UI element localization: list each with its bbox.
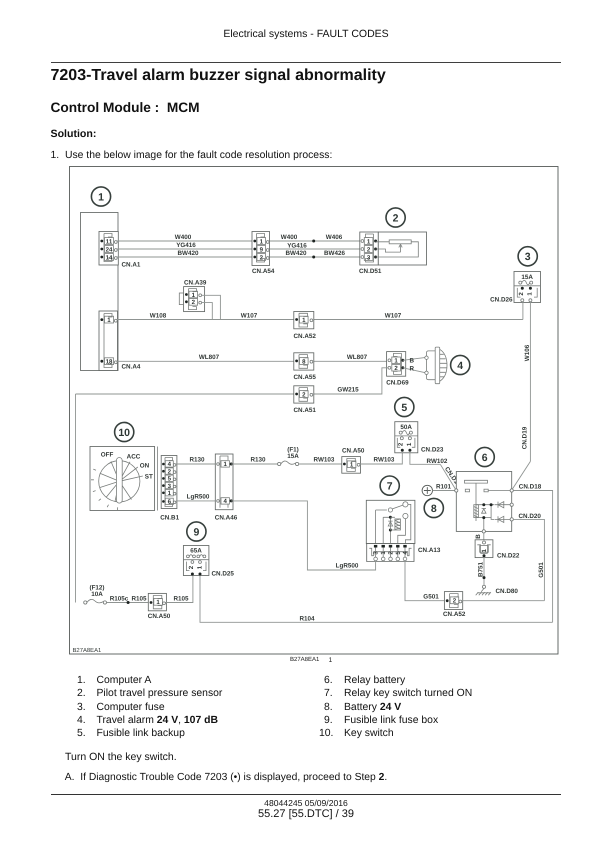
connector CN.A13 xyxy=(367,544,441,562)
svg-text:B751: B751 xyxy=(478,561,485,577)
svg-text:10A: 10A xyxy=(91,591,103,598)
svg-text:B: B xyxy=(410,357,415,364)
svg-text:R: R xyxy=(410,365,415,372)
connector CN.A39 xyxy=(179,279,207,311)
svg-text:CN.A55: CN.A55 xyxy=(294,374,317,381)
wire YG416 row xyxy=(117,242,360,250)
svg-text:W108: W108 xyxy=(150,312,167,319)
balloon 7 xyxy=(380,476,399,495)
svg-text:15A: 15A xyxy=(287,453,299,460)
svg-text:2: 2 xyxy=(453,598,457,605)
connector CN.B1 xyxy=(160,456,179,522)
wire R130 CN.B1 to CN.A46 xyxy=(176,457,216,465)
wire CN.A52 to G501 vertical xyxy=(462,600,545,602)
svg-text:4: 4 xyxy=(224,498,228,505)
svg-text:RW102: RW102 xyxy=(427,458,448,465)
svg-text:24: 24 xyxy=(106,246,113,253)
svg-text:50A: 50A xyxy=(400,424,412,431)
svg-text:ON: ON xyxy=(140,462,150,469)
svg-text:CN.D80: CN.D80 xyxy=(496,588,519,595)
svg-text:CN.A50: CN.A50 xyxy=(342,447,365,454)
svg-text:18: 18 xyxy=(106,359,113,366)
svg-text:3: 3 xyxy=(525,251,531,263)
svg-text:R130: R130 xyxy=(250,457,266,464)
svg-text:RW103: RW103 xyxy=(374,457,395,464)
svg-text:1: 1 xyxy=(406,442,413,446)
svg-text:CN.D18: CN.D18 xyxy=(519,484,542,491)
svg-text:14: 14 xyxy=(106,254,113,261)
svg-text:CN.A4: CN.A4 xyxy=(122,364,141,371)
svg-text:CN.A51: CN.A51 xyxy=(294,407,317,414)
balloon 4 xyxy=(451,355,470,374)
connector CN.D69 xyxy=(386,352,409,387)
svg-text:2: 2 xyxy=(393,212,399,224)
svg-text:WL807: WL807 xyxy=(347,354,368,361)
svg-text:CN.B1: CN.B1 xyxy=(160,514,179,521)
wire R105c with splice xyxy=(107,595,149,604)
splice on W400/W406 xyxy=(312,240,315,243)
wire B to buzzer xyxy=(403,357,425,364)
wire W400 row xyxy=(117,234,360,241)
wire G501 from relay K2 to CN.A52 xyxy=(405,561,444,601)
computer A body xyxy=(81,213,119,371)
balloon 3 xyxy=(518,247,537,266)
balloon 6 xyxy=(475,447,494,466)
fuse F3 15A CN.D26 xyxy=(490,272,540,304)
svg-text:CN.A1: CN.A1 xyxy=(122,262,141,269)
wire W106 vertical xyxy=(524,302,531,462)
svg-text:1: 1 xyxy=(197,565,204,569)
relay battery K1 xyxy=(455,472,514,534)
svg-text:7: 7 xyxy=(387,480,393,492)
connector CN.A4 xyxy=(99,311,141,371)
wire W108 / W107 row xyxy=(117,312,523,319)
wire CN.D17 diagonal xyxy=(440,464,462,490)
svg-text:LgR500: LgR500 xyxy=(187,493,210,500)
relay key switch K2 xyxy=(366,500,415,543)
svg-text:65A: 65A xyxy=(190,547,202,554)
svg-text:LgR500: LgR500 xyxy=(336,563,359,570)
wire RW103 CN.A50 to fuse 50A xyxy=(360,452,402,464)
footer xyxy=(51,794,562,795)
connector CN.D22 (pin 1) xyxy=(475,540,520,560)
svg-text:YG416: YG416 xyxy=(287,243,307,250)
connector CN.A46 xyxy=(215,454,238,521)
fuse F12 10A xyxy=(84,584,107,604)
svg-text:R105: R105 xyxy=(173,595,189,602)
travel alarm buzzer xyxy=(425,347,447,384)
wire R to buzzer xyxy=(403,365,425,372)
svg-text:6: 6 xyxy=(482,452,488,464)
wire R105 to 65A fuse xyxy=(165,576,193,603)
svg-text:CN.D22: CN.D22 xyxy=(497,552,520,559)
pressure sensor U2 body xyxy=(376,232,427,265)
wire LgR500 CN.B1 to CN.A46 xyxy=(176,493,216,501)
connector CN.A52 (pin 2, ground) xyxy=(443,592,466,618)
svg-text:15A: 15A xyxy=(521,274,533,281)
svg-text:W107: W107 xyxy=(241,312,258,319)
svg-text:W406: W406 xyxy=(326,234,343,241)
legend list xyxy=(0,674,596,676)
header xyxy=(8,28,596,40)
svg-text:G501: G501 xyxy=(423,593,439,600)
connector CN.D51 xyxy=(359,232,382,275)
svg-text:W400: W400 xyxy=(175,234,192,241)
svg-text:R130: R130 xyxy=(189,457,205,464)
wire from CN.A39 pin1 down to W107 xyxy=(202,295,221,319)
svg-text:11: 11 xyxy=(106,238,113,245)
connector CN.A52 (pin 1) xyxy=(294,312,317,340)
wire R101 battery to relay xyxy=(433,483,457,490)
fusible link fuse box 65A CN.D25 xyxy=(183,546,234,578)
wire BW420 row xyxy=(117,250,360,257)
svg-text:CN.A50: CN.A50 xyxy=(148,613,171,620)
svg-text:G501: G501 xyxy=(538,562,545,578)
battery positive terminal xyxy=(422,485,432,495)
connector CN.A1 xyxy=(99,232,141,269)
balloon 9 xyxy=(187,522,206,541)
wire from CN.D18 down right side xyxy=(513,491,552,623)
svg-text:CN.A52: CN.A52 xyxy=(294,333,317,340)
svg-text:4: 4 xyxy=(457,360,463,372)
connector CN.A55 (pin 8) xyxy=(294,353,317,381)
svg-text:R105: R105 xyxy=(131,595,147,602)
balloon 8 xyxy=(424,498,443,517)
connector CN.A50 (pin 1, lower) xyxy=(148,593,171,619)
svg-text:RW103: RW103 xyxy=(314,457,335,464)
splice on BW420/BW426 xyxy=(312,256,315,259)
wire R104 row xyxy=(200,576,553,623)
wire WL807 row xyxy=(117,354,387,362)
svg-text:2: 2 xyxy=(398,442,405,446)
svg-text:B: B xyxy=(475,534,482,539)
svg-text:CN.D19: CN.D19 xyxy=(522,426,529,449)
svg-text:5: 5 xyxy=(401,402,407,414)
svg-text:9: 9 xyxy=(193,526,199,538)
key switch SW1 xyxy=(90,447,158,511)
svg-text:1: 1 xyxy=(224,461,228,468)
svg-text:GW215: GW215 xyxy=(337,387,359,394)
connector CN.A54 xyxy=(252,232,275,275)
svg-text:ST: ST xyxy=(145,474,153,481)
fusible link 50A CN.D23 xyxy=(395,422,444,454)
svg-text:CN.D23: CN.D23 xyxy=(421,446,444,453)
svg-text:CN.D25: CN.D25 xyxy=(212,571,235,578)
svg-text:CN.A46: CN.A46 xyxy=(215,514,238,521)
svg-text:CN.A54: CN.A54 xyxy=(252,268,275,275)
svg-text:YG416: YG416 xyxy=(176,242,196,249)
svg-text:ACC: ACC xyxy=(127,453,141,460)
svg-text:8: 8 xyxy=(431,503,437,515)
long left wire down to F12 xyxy=(75,394,77,603)
balloon 5 xyxy=(395,397,414,416)
svg-text:CN.D26: CN.D26 xyxy=(490,297,513,304)
svg-text:1: 1 xyxy=(98,191,104,203)
svg-text:R101: R101 xyxy=(436,483,452,490)
wire RW102 xyxy=(410,452,448,465)
wire B from relay to CN.D22 xyxy=(475,533,484,541)
ground CN.D80 xyxy=(476,585,519,595)
wire R130 to fuse F1 xyxy=(231,457,278,465)
balloon 1 xyxy=(91,187,110,206)
svg-text:W106: W106 xyxy=(524,344,531,361)
wire from CN.D20 to G501 vertical xyxy=(513,519,544,600)
wire RW103 fuse F1 to CN.A50 xyxy=(299,457,342,465)
connector CN.A50 (pin 1) xyxy=(342,447,365,473)
svg-text:BW426: BW426 xyxy=(324,250,345,257)
connector CN.A51 (pin 2) xyxy=(294,386,317,414)
balloon 2 xyxy=(386,208,405,227)
diagram outer border xyxy=(70,167,559,655)
wire B751 to ground xyxy=(478,557,486,585)
svg-text:CN.D51: CN.D51 xyxy=(359,268,382,275)
svg-text:CN.A39: CN.A39 xyxy=(184,279,207,286)
svg-text:W400: W400 xyxy=(281,234,298,241)
wire LgR500 from CN.A46 to relay K2 xyxy=(231,501,375,570)
svg-text:CN.A13: CN.A13 xyxy=(418,547,441,554)
svg-text:CN.D69: CN.D69 xyxy=(386,379,409,386)
svg-text:R104: R104 xyxy=(299,615,315,622)
svg-text:WL807: WL807 xyxy=(199,354,220,361)
svg-text:OFF: OFF xyxy=(101,451,114,458)
wire from CN.A39 pin2 down to W108 xyxy=(202,303,213,320)
svg-text:R105c: R105c xyxy=(110,595,129,602)
svg-text:B27A8EA1: B27A8EA1 xyxy=(73,647,102,654)
wire GW215 row xyxy=(76,368,389,394)
balloon 10 xyxy=(115,422,134,441)
svg-text:10: 10 xyxy=(118,427,130,439)
svg-text:1: 1 xyxy=(380,551,387,555)
svg-text:CN.A52: CN.A52 xyxy=(443,611,466,618)
svg-text:BW420: BW420 xyxy=(286,250,307,257)
wire CN.D19 diagonal to relay xyxy=(512,426,530,489)
fuse F1 15A xyxy=(278,446,300,465)
caption under diagram xyxy=(290,657,319,663)
svg-text:BW420: BW420 xyxy=(178,250,199,257)
svg-text:W107: W107 xyxy=(385,312,402,319)
wire W107 rise to fuse CN.D26 xyxy=(522,302,524,320)
